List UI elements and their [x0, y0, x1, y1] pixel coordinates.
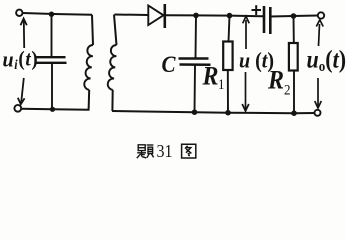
label R1	[202, 60, 225, 92]
voltage arrow u lower	[242, 72, 249, 111]
caption 图 glyph	[182, 144, 196, 158]
svg-text:ui(t): ui(t)	[3, 46, 39, 72]
terminal input bottom	[14, 105, 21, 112]
label u_i(t)	[3, 46, 39, 72]
label u_o(t)	[307, 46, 346, 75]
svg-text:uo(t): uo(t)	[307, 46, 346, 75]
node bottom of input capacitor	[50, 107, 55, 112]
node top of resistor R2	[291, 13, 297, 19]
wire coupling capacitor to R2 node	[270, 16, 317, 17]
label + polarity	[252, 5, 262, 15]
voltage arrow u_i upper	[21, 19, 27, 49]
svg-text:R: R	[267, 64, 284, 95]
terminal output bottom	[315, 110, 321, 116]
wire resistor R2 top lead	[293, 16, 295, 42]
wire bottom rail secondary	[112, 111, 315, 113]
voltage arrow u_o lower	[315, 78, 322, 108]
voltage arrow u upper	[243, 16, 250, 49]
resistor R2	[289, 43, 298, 71]
wire bottom-left rail	[21, 109, 89, 110]
label C	[162, 51, 176, 77]
wire input capacitor bottom lead	[51, 64, 53, 109]
svg-text:31: 31	[157, 141, 173, 161]
wire capacitor C bottom lead	[194, 66, 197, 113]
wire secondary coil top lead	[114, 15, 117, 46]
label R2	[267, 64, 291, 97]
diode D	[148, 4, 165, 28]
wire top-left rail	[23, 13, 92, 15]
terminal output top	[318, 12, 324, 18]
wire primary coil bottom lead	[88, 90, 91, 110]
capacitor coupling (polarized)	[264, 6, 270, 34]
voltage arrow u_i lower	[18, 78, 25, 104]
caption 31 text	[157, 141, 173, 161]
node bottom of capacitor C	[192, 109, 198, 115]
transformer primary coil	[84, 45, 93, 90]
node top of capacitor C	[193, 13, 199, 19]
wire secondary coil bottom lead	[111, 90, 113, 111]
terminal input top	[16, 10, 22, 16]
resistor R1	[223, 42, 232, 71]
wire resistor R1 top lead	[229, 16, 230, 42]
node top of resistor R1	[227, 13, 233, 19]
node bottom of resistor R2	[291, 110, 297, 116]
wire primary coil top lead	[92, 15, 93, 45]
caption 题 glyph	[137, 145, 154, 158]
wire resistor R2 bottom lead	[293, 71, 295, 114]
voltage arrow u_o upper	[316, 20, 323, 46]
wire R1 node to coupling capacitor	[230, 15, 264, 18]
svg-text:C: C	[162, 51, 176, 77]
svg-text:2: 2	[284, 82, 291, 98]
wire secondary top rail to diode	[115, 14, 149, 17]
wire resistor R1 bottom lead	[227, 70, 229, 113]
svg-text:R: R	[202, 60, 219, 91]
node top of input capacitor	[49, 12, 54, 17]
capacitor input (parallel)	[36, 57, 67, 63]
wire diode to C node	[166, 14, 197, 16]
capacitor C	[179, 59, 211, 65]
wire capacitor C top lead	[195, 15, 198, 57]
transformer secondary coil	[108, 45, 117, 90]
wire input capacitor top lead	[51, 14, 53, 56]
wire top rail C node to R1 node	[196, 14, 230, 16]
node bottom of resistor R1	[225, 110, 231, 116]
label u (t)	[239, 48, 274, 73]
svg-text:1: 1	[218, 76, 225, 92]
